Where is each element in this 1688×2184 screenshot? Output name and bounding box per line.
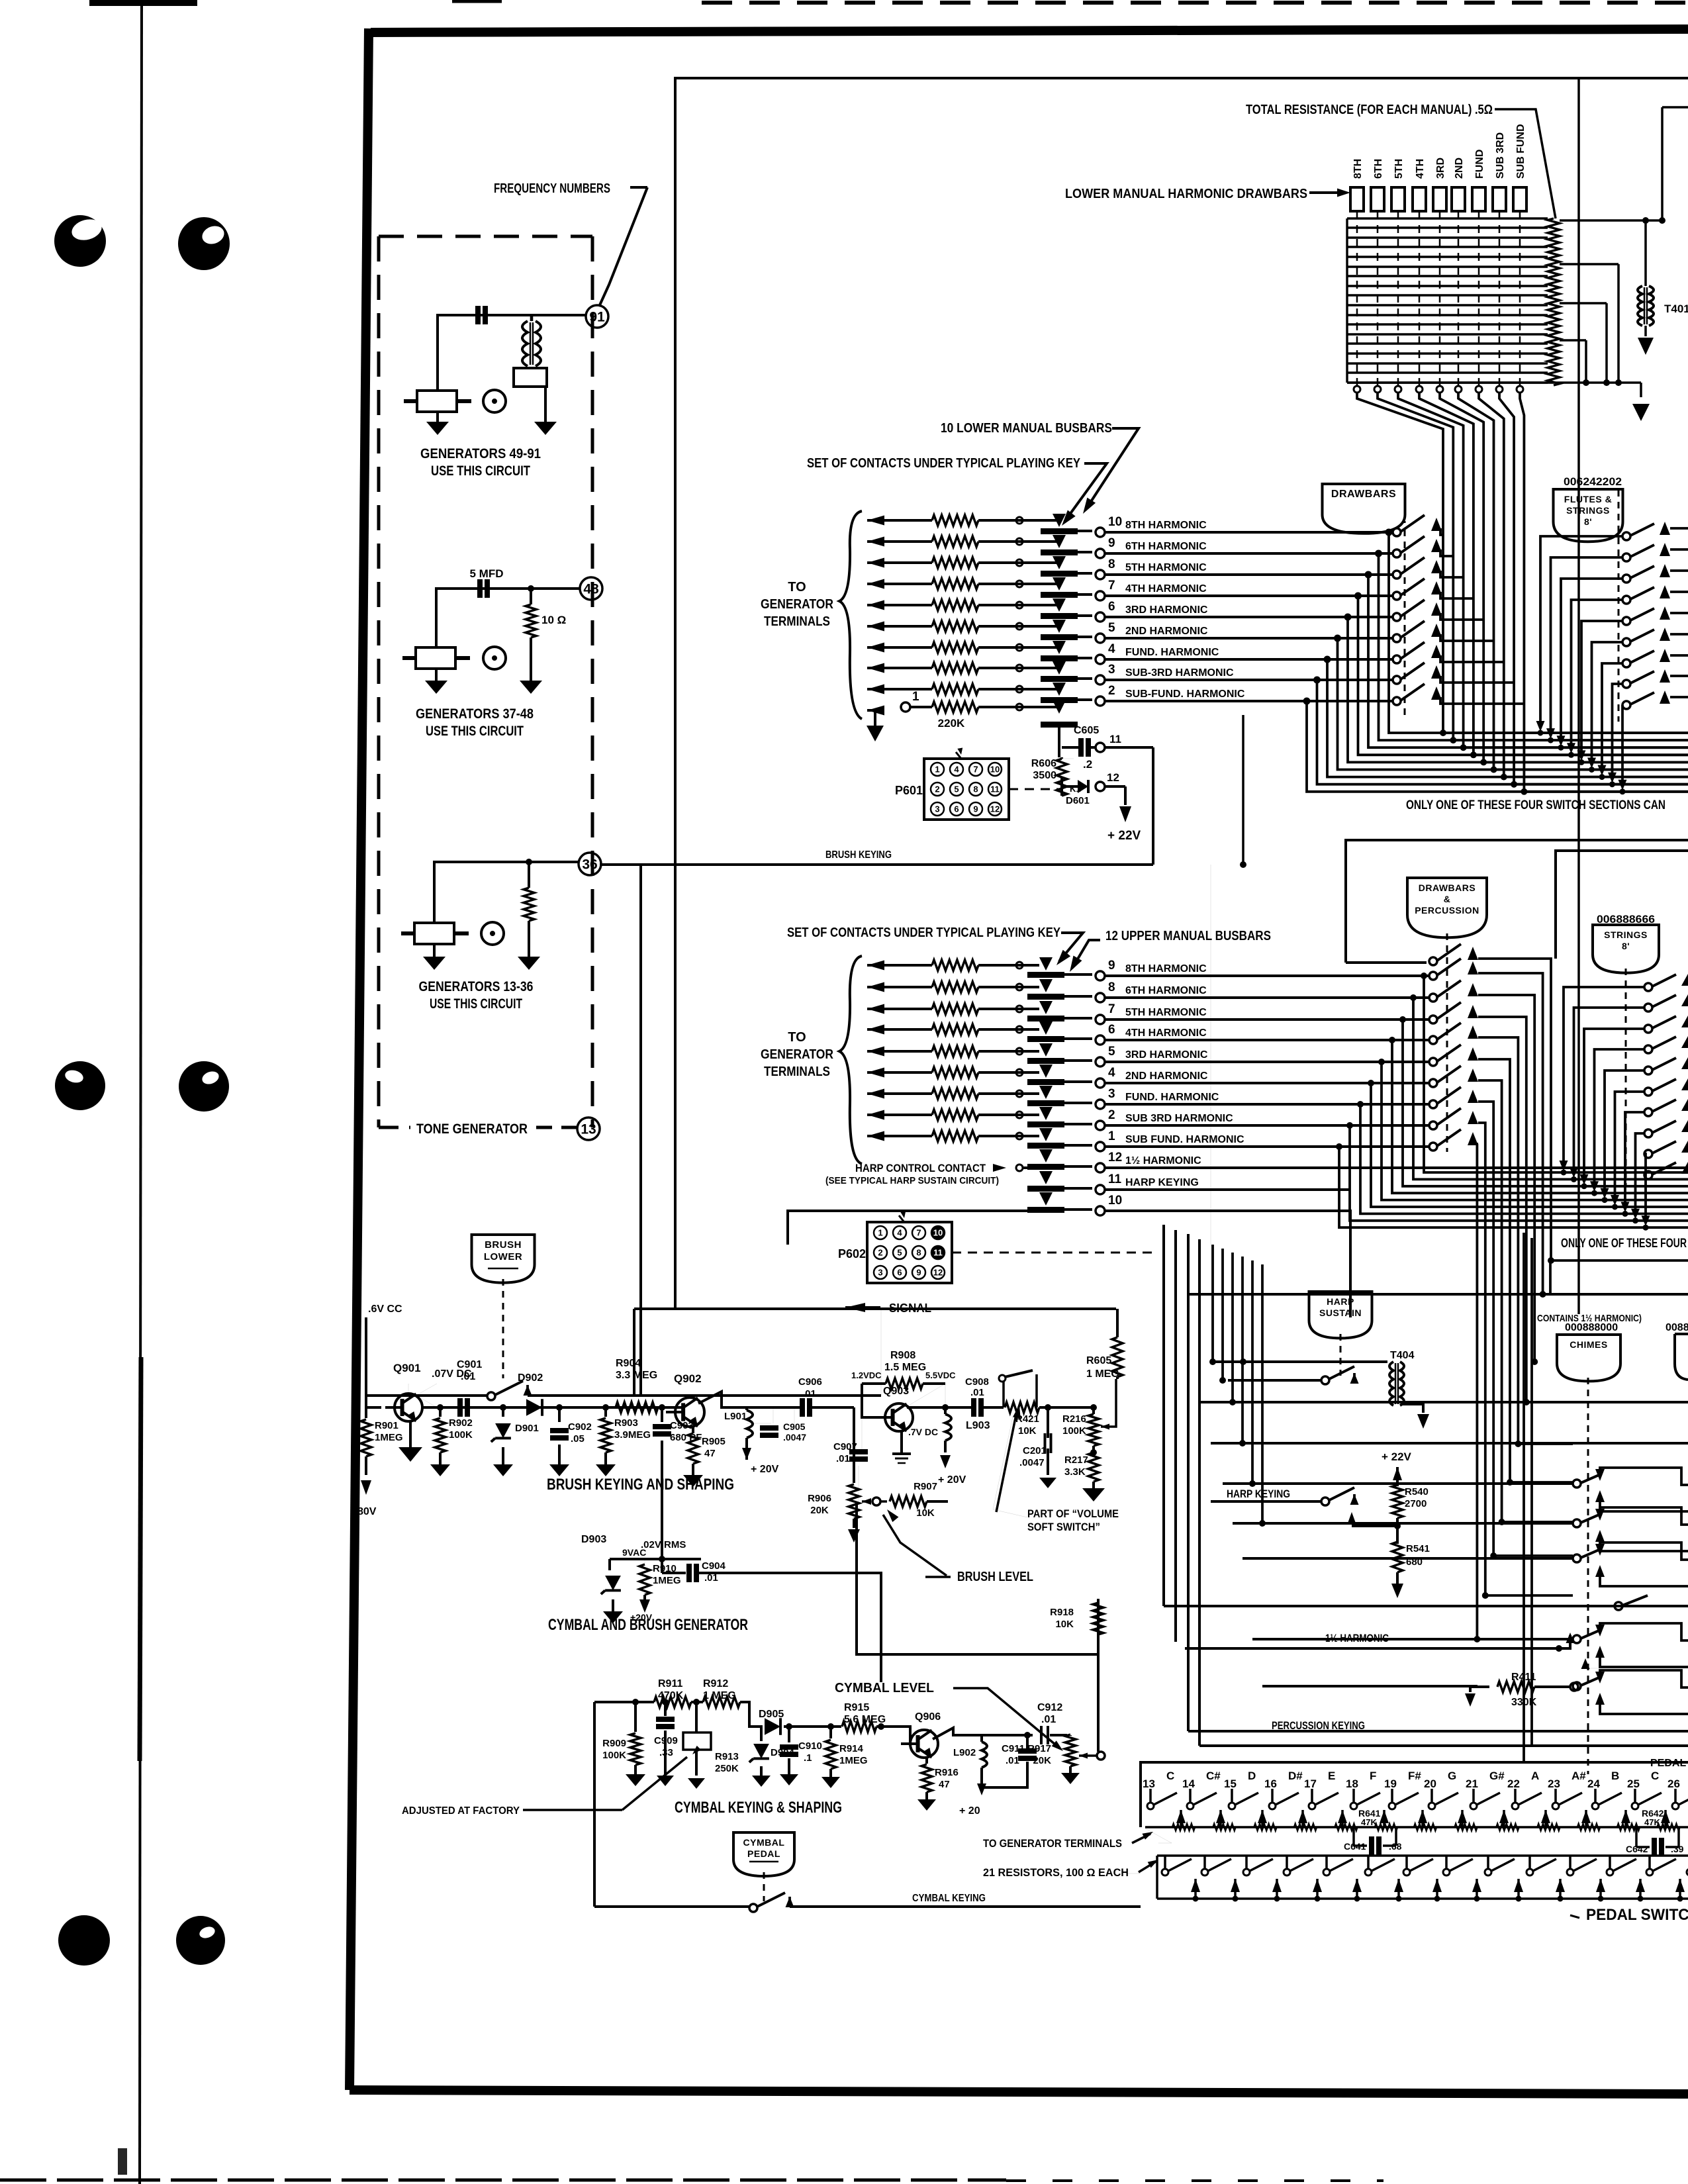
svg-text:+ 20V: + 20V (938, 1474, 966, 1486)
drawbar grid wire (1347, 304, 1548, 306)
svg-text:R216: R216 (1062, 1413, 1086, 1425)
frequency node circle 91 (586, 305, 608, 328)
svg-text:2700: 2700 (1405, 1498, 1427, 1509)
wire to R906 (853, 1407, 855, 1483)
svg-text:GENERATORS 49-91: GENERATORS 49-91 (420, 446, 541, 461)
svg-text:100K: 100K (602, 1750, 626, 1761)
drawbar dashed drop (1439, 211, 1441, 385)
svg-text:36: 36 (582, 857, 597, 873)
busbar segment 2 (1041, 697, 1078, 703)
wire Q903 out down (857, 1501, 1098, 1654)
brace TO GENERATOR TERMINALS lower (839, 511, 862, 719)
drawbar grid wire (1347, 314, 1548, 316)
diode D901 shunt (500, 1405, 506, 1411)
total resistance zigzag (1548, 218, 1560, 385)
svg-text:47: 47 (939, 1779, 950, 1790)
svg-text:GENERATORS 13-36: GENERATORS 13-36 (419, 979, 534, 994)
svg-text:C201: C201 (1023, 1445, 1047, 1456)
lower manual key contact row 10 (867, 516, 884, 526)
leader total resistance (1495, 109, 1556, 218)
dashed drop brush shield (502, 1279, 504, 1378)
terminal circle 2 (1096, 696, 1105, 706)
upper terminal circle 2 (1096, 1121, 1105, 1130)
resistor R540 2700 (1392, 1485, 1403, 1518)
leader to drawbars (1309, 191, 1344, 194)
flutes switch output (1670, 591, 1688, 593)
svg-text:20K: 20K (810, 1505, 829, 1516)
svg-text:9: 9 (916, 1268, 921, 1278)
dashed drop strings shield (1625, 969, 1627, 1185)
d&p switch output to percussion (1477, 1144, 1478, 1639)
percussion switch row 1 (1573, 1480, 1581, 1488)
svg-text:T404: T404 (1390, 1350, 1415, 1361)
d&p switch output to percussion (1478, 995, 1534, 1362)
svg-text:11: 11 (933, 1248, 943, 1258)
shield HARP SUSTAIN (1309, 1292, 1372, 1338)
leader line frequency numbers (599, 187, 647, 307)
wire row 10 L-shape (1105, 1211, 1350, 1317)
svg-text:D601: D601 (1066, 795, 1090, 806)
pot R913 250K (694, 1699, 700, 1705)
capacitor C905 .0047 (747, 1423, 771, 1424)
upper switch area box (1346, 840, 1688, 963)
svg-text:.01: .01 (461, 1371, 475, 1382)
svg-text:SUB FUND: SUB FUND (1515, 124, 1526, 179)
inductor L902 (980, 1735, 983, 1742)
svg-text:6: 6 (954, 804, 959, 814)
wire magnet to ground gen1 (544, 387, 547, 422)
svg-text:F#: F# (1408, 1770, 1421, 1782)
punch hole top left (54, 215, 106, 267)
upper busbar segment 2 (1027, 1121, 1064, 1127)
svg-text:8: 8 (1108, 980, 1115, 994)
switch strings row 6 (1644, 1088, 1652, 1096)
bottom edge dashes (0, 2179, 1006, 2182)
svg-text:D: D (1248, 1770, 1256, 1782)
page edge line (140, 0, 142, 2184)
svg-text:8: 8 (1108, 557, 1115, 571)
switch drawbars row 3 (1393, 571, 1401, 579)
svg-text:1½ HARMONIC: 1½ HARMONIC (1125, 1155, 1201, 1166)
wire Q901 base feed (365, 1317, 367, 1407)
drawbar grid wire (1347, 333, 1548, 335)
svg-text:3.9MEG: 3.9MEG (614, 1429, 651, 1441)
svg-text:LOWER MANUAL HARMONIC DRAWB: LOWER MANUAL HARMONIC DRAWBARS (1065, 187, 1307, 201)
svg-text:Q902: Q902 (674, 1372, 702, 1385)
drawbar dashed drop (1356, 211, 1358, 385)
switch flutes row 9 (1622, 701, 1630, 709)
svg-text:.01: .01 (970, 1387, 984, 1398)
switch strings row 9 (1644, 1150, 1652, 1158)
upper manual key contact row 8 (867, 982, 884, 992)
wire to switch section (1105, 616, 1393, 618)
svg-text:.01: .01 (1041, 1714, 1056, 1725)
long verticals to pedal area (1523, 1233, 1525, 1762)
C642 .39 (1635, 1827, 1638, 1847)
svg-text:2: 2 (1108, 1108, 1115, 1122)
svg-text:6: 6 (1108, 1023, 1115, 1037)
long verticals upper area to percussion (1162, 1225, 1165, 1606)
svg-text:DRAWBARS: DRAWBARS (1331, 489, 1396, 500)
pickup symbol gen3 (481, 922, 504, 945)
ground gen1 right (534, 422, 557, 435)
pickup symbol gen1 (483, 390, 506, 412)
resistor R904 3.3 MEG (616, 1402, 658, 1413)
upper terminal circle 6 (1096, 1035, 1105, 1045)
svg-text:TO: TO (788, 580, 806, 594)
tone generator dashed box (379, 235, 592, 238)
bundle feed vertical (1261, 1264, 1264, 1523)
common bus vertical 2 (1378, 393, 1453, 740)
dashed link P601 to D601 (1009, 788, 1059, 790)
frequency node circle 36 (579, 853, 601, 875)
svg-text:USE THIS CIRCUIT: USE THIS CIRCUIT (431, 463, 530, 479)
switch contact stub (1440, 549, 1453, 556)
capacitor C901 .01 (457, 1398, 463, 1417)
lower manual key contact row 7 (867, 579, 884, 589)
svg-text:10: 10 (1108, 515, 1122, 529)
generator 49-91 circuit wires (438, 315, 586, 391)
top-left corner streak (89, 0, 197, 6)
drawbar dashed drop (1499, 211, 1501, 385)
pedal lower switch 18 (1367, 1856, 1370, 1870)
upper manual row 11 (1039, 1171, 1053, 1184)
svg-text:HARP CONTROL CONTACT: HARP CONTROL CONTACT (855, 1162, 986, 1174)
svg-text:3: 3 (1108, 1087, 1115, 1101)
svg-text:ADJUSTED AT FACTORY: ADJUSTED AT FACTORY (402, 1805, 520, 1817)
svg-text:8': 8' (1622, 941, 1630, 951)
flutes switch output (1670, 548, 1688, 551)
brush keying switch (487, 1392, 495, 1400)
svg-text:9: 9 (1108, 959, 1115, 973)
svg-text:R916: R916 (935, 1767, 959, 1778)
svg-text:CYMBAL: CYMBAL (743, 1837, 785, 1848)
pedal lower switch 19 (1405, 1856, 1408, 1870)
dashed drop flutes shield (1618, 490, 1620, 722)
svg-text:PEDAL: PEDAL (747, 1848, 780, 1859)
upper manual key contact row 7 (867, 1004, 884, 1014)
d&p switch output to percussion (1478, 959, 1551, 1260)
lower manual key contact row 3 (867, 663, 884, 673)
switch strings row 4 (1644, 1045, 1652, 1053)
busbar segment 9 (1041, 549, 1078, 555)
svg-text:Q903: Q903 (883, 1386, 909, 1397)
svg-text:5TH: 5TH (1393, 159, 1405, 179)
svg-text:0088: 0088 (1665, 1322, 1688, 1333)
svg-text:CHIMES: CHIMES (1570, 1339, 1607, 1350)
pedal lower switch 13 (1164, 1856, 1166, 1870)
wire to upper switch section (1105, 1039, 1430, 1041)
common bus vertical 3 (1398, 393, 1464, 747)
pedal lower switch row (1157, 1854, 1688, 1857)
terminal circle 5 (1096, 634, 1105, 643)
svg-text:PERCUSSION: PERCUSSION (1415, 905, 1479, 916)
junction from Q903 chain (878, 1724, 884, 1730)
switch drawbars&percussion row 8 (1429, 1100, 1437, 1108)
upper manual key contact row 2 (867, 1110, 884, 1120)
chain resistor 100 ohm (1497, 1824, 1519, 1830)
svg-text:FUND. HARMONIC: FUND. HARMONIC (1125, 647, 1219, 658)
+20 arrow (977, 1783, 986, 1795)
zener D903 (608, 1559, 611, 1570)
dashed drop harp sustain (1340, 1334, 1342, 1376)
d&p switch output to percussion (1478, 1123, 1485, 1595)
pickup symbol gen2 (483, 647, 506, 669)
drawbar dashed drop (1478, 211, 1480, 385)
wire to upper switch section (1105, 1082, 1430, 1084)
d&p switch output to percussion (1478, 1059, 1510, 1482)
svg-text:14: 14 (1182, 1778, 1195, 1790)
svg-text:&: & (1444, 894, 1451, 904)
svg-text:CYMBAL KEYING & SHAPING: CYMBAL KEYING & SHAPING (675, 1799, 842, 1817)
svg-text:R902: R902 (449, 1417, 473, 1429)
svg-text:BRUSH: BRUSH (485, 1239, 522, 1251)
svg-text:D#: D# (1288, 1770, 1303, 1782)
coil gen1 (522, 321, 528, 366)
shield DRAWBARS (1323, 484, 1405, 534)
svg-text:BRUSH KEYING AND SHAPING: BRUSH KEYING AND SHAPING (547, 1476, 734, 1494)
bundle feed vertical (1211, 1245, 1214, 1362)
busbar segment 5 (1041, 634, 1078, 640)
upper terminal circle 3 (1096, 1100, 1105, 1109)
switch contact stub (1440, 613, 1483, 620)
resistor R907 10K (880, 1500, 887, 1503)
bundle row lower (1511, 781, 1517, 787)
connector P601 (924, 759, 1009, 820)
svg-text:G: G (1448, 1770, 1456, 1782)
lower row 220K (867, 706, 884, 716)
common bus vertical 5 (1440, 393, 1483, 762)
svg-text:+ 22V: + 22V (1382, 1450, 1412, 1463)
generator 13-36 circuit wires (434, 862, 579, 923)
svg-text:15: 15 (1224, 1778, 1237, 1790)
svg-text:7: 7 (1108, 579, 1115, 593)
switch drawbars row 7 (1393, 655, 1401, 663)
svg-text:1½ HARMONIC: 1½ HARMONIC (1325, 1632, 1389, 1644)
chain resistor 100 ohm (1335, 1824, 1358, 1830)
switch flutes row 6 (1622, 638, 1630, 646)
svg-text:L901: L901 (724, 1411, 747, 1422)
svg-text:4: 4 (1108, 1066, 1115, 1080)
pedal lower switch 25 (1648, 1856, 1651, 1870)
upper terminal circle 4 (1096, 1078, 1105, 1088)
flutes feed drop to bundle (1561, 579, 1622, 739)
svg-text:006242202: 006242202 (1564, 475, 1622, 488)
svg-text:20: 20 (1424, 1778, 1436, 1790)
svg-text:1.5 MEG: 1.5 MEG (884, 1362, 926, 1373)
svg-text:ONLY ONE OF THESE FOUR: ONLY ONE OF THESE FOUR (1561, 1237, 1687, 1251)
bundle feed vertical (1241, 1257, 1244, 1443)
ground under T401 (1638, 338, 1654, 355)
svg-text:1: 1 (935, 765, 939, 775)
svg-text:(SEE TYPICAL HARP SUSTAIN CIR: (SEE TYPICAL HARP SUSTAIN CIRCUIT) (825, 1175, 999, 1186)
svg-text:SET OF CONTACTS UNDER TYPI: SET OF CONTACTS UNDER TYPICAL PLAYING KE… (787, 926, 1061, 940)
label PART OF VOLUME SOFT SWITCH (993, 1417, 1027, 1517)
switch drawbars&percussion row 2 (1429, 972, 1437, 980)
svg-text:5: 5 (1108, 621, 1115, 635)
svg-text:C642: C642 (1626, 1844, 1648, 1854)
svg-text:R901: R901 (375, 1420, 399, 1431)
wire cymbal keying (594, 1905, 749, 1908)
svg-text:P601: P601 (895, 784, 923, 797)
capacitor C907 .01 (861, 1417, 863, 1450)
svg-text:TERMINALS: TERMINALS (764, 614, 830, 629)
upper busbar segment 5 (1027, 1058, 1064, 1064)
svg-text:C#: C# (1206, 1770, 1221, 1782)
svg-text:SUB 3RD HARMONIC: SUB 3RD HARMONIC (1125, 1113, 1233, 1124)
chain resistor 100 ohm (1577, 1824, 1600, 1830)
magnet box gen1 (514, 368, 547, 387)
switch drawbars&percussion row 9 (1429, 1121, 1437, 1129)
T404 secondary to ground (1401, 1404, 1423, 1413)
svg-text:STRINGS: STRINGS (1604, 929, 1648, 940)
drawbar dashed drop (1458, 211, 1460, 385)
drawbar grid wire (1347, 275, 1548, 277)
wire to upper switch section (1105, 996, 1430, 999)
pedal lower switch 16 (1286, 1856, 1288, 1870)
svg-text:1MEG: 1MEG (839, 1755, 868, 1766)
collector node wire (698, 1392, 800, 1407)
svg-text:R915: R915 (844, 1702, 869, 1713)
svg-text:C912: C912 (1037, 1702, 1062, 1713)
svg-text:3.3 MEG: 3.3 MEG (616, 1370, 657, 1381)
svg-text:3: 3 (935, 804, 939, 814)
vertical bus x1878 (1242, 715, 1244, 865)
svg-text:10 Ω: 10 Ω (541, 614, 566, 626)
svg-text:22: 22 (1507, 1778, 1520, 1790)
upper busbar segment 3 (1027, 1100, 1064, 1106)
svg-text:6TH HARMONIC: 6TH HARMONIC (1125, 541, 1207, 552)
d&p switch output to percussion (1478, 1102, 1493, 1556)
svg-text:PEDAL S: PEDAL S (1650, 1758, 1688, 1769)
svg-text:CYMBAL AND BRUSH GENERATOR: CYMBAL AND BRUSH GENERATOR (548, 1616, 748, 1634)
chain resistor 100 ohm (1172, 1824, 1195, 1830)
svg-text:10: 10 (990, 765, 1000, 775)
terminal circle 10 (1096, 528, 1105, 537)
pedal lower switch 14 (1203, 1856, 1206, 1870)
oscillator coil assembly gen1 (417, 391, 457, 412)
diode D601 (1060, 777, 1063, 796)
flutes switch output (1670, 633, 1688, 636)
svg-text:C908: C908 (965, 1376, 989, 1388)
wire tone-gen 36 to brush area vertical (639, 865, 642, 1396)
svg-text:R905: R905 (702, 1436, 726, 1447)
switch drawbars&percussion row 4 (1429, 1016, 1437, 1023)
drawbar dashed drop (1397, 211, 1399, 385)
svg-text:47K: 47K (1644, 1817, 1660, 1827)
bundle row lower (1521, 788, 1527, 794)
svg-text:4TH HARMONIC: 4TH HARMONIC (1125, 1027, 1207, 1039)
svg-text:330K: 330K (1511, 1697, 1537, 1708)
svg-text:5TH HARMONIC: 5TH HARMONIC (1125, 1007, 1207, 1018)
capacitor C903 680PF (661, 1407, 663, 1422)
terminal circle 4 (1096, 655, 1105, 664)
svg-text:1: 1 (878, 1228, 882, 1238)
svg-text:USE THIS CIRCUIT: USE THIS CIRCUIT (430, 996, 522, 1012)
svg-text:100K: 100K (1062, 1425, 1086, 1437)
flutes switch output (1670, 675, 1688, 677)
punch hole bottom left (58, 1915, 110, 1966)
svg-text:6: 6 (897, 1268, 902, 1278)
capacitor 5mfd gen2 (477, 579, 483, 598)
svg-text:SUSTAIN: SUSTAIN (1319, 1307, 1362, 1318)
switch contact stub (1440, 655, 1504, 662)
grid left vertical (1346, 218, 1348, 383)
svg-text:3RD: 3RD (1435, 158, 1446, 179)
svg-text:PART OF “VOLUME: PART OF “VOLUME (1027, 1507, 1119, 1520)
svg-text:R909: R909 (602, 1738, 626, 1749)
bundle row lower (1470, 752, 1476, 758)
drawbar grid wire (1347, 236, 1548, 238)
svg-text:11: 11 (1108, 1172, 1122, 1186)
inner box lower-manual area (675, 78, 1688, 1309)
drawbar grid wire (1347, 342, 1548, 344)
Q903 emitter ground (900, 1431, 903, 1454)
svg-text:8': 8' (1584, 516, 1592, 527)
drawbar SUB 3RD (1493, 187, 1506, 211)
svg-text:SUB 3RD: SUB 3RD (1495, 132, 1506, 179)
svg-text:FREQUENCY NUMBERS: FREQUENCY NUMBERS (494, 181, 610, 196)
svg-text:9: 9 (1108, 536, 1115, 550)
switch flutes row 5 (1622, 617, 1630, 625)
flutes switch output (1670, 654, 1688, 657)
page edge smudge bottom (140, 1357, 141, 1761)
svg-text:ONLY ONE OF THESE FOUR SWITCH: ONLY ONE OF THESE FOUR SWITCH SECTIONS C… (1406, 798, 1665, 812)
svg-text:R540: R540 (1405, 1486, 1429, 1497)
switch strings row 7 (1644, 1108, 1652, 1116)
drawbar grid wire (1347, 226, 1548, 228)
resistance taps (1560, 219, 1662, 222)
svg-text:5.5VDC: 5.5VDC (925, 1370, 956, 1380)
pot R216 100K (1091, 1405, 1097, 1411)
resistor R541 680 (1392, 1542, 1403, 1572)
wire to upper switch section (1105, 1061, 1430, 1063)
volume soft switch (982, 1406, 1004, 1409)
common bus vertical 1 (1357, 393, 1443, 733)
svg-text:18: 18 (1346, 1778, 1358, 1790)
pedal lower switch 20 (1445, 1856, 1448, 1870)
svg-text:.02V RMS: .02V RMS (641, 1539, 686, 1550)
inductor L901 (745, 1407, 748, 1410)
svg-text:D902: D902 (518, 1372, 543, 1384)
svg-text:47K: 47K (1361, 1817, 1377, 1827)
svg-text:2ND HARMONIC: 2ND HARMONIC (1125, 626, 1208, 637)
svg-text:HARP: HARP (1327, 1296, 1354, 1307)
terminal circle 6 (1096, 612, 1105, 622)
wire to switch section (1105, 552, 1393, 555)
svg-text:2ND HARMONIC: 2ND HARMONIC (1125, 1070, 1208, 1082)
drawbar grid wire (1347, 285, 1548, 287)
upper manual key contact row 3 (867, 1089, 884, 1099)
common bus vertical 6 (1458, 393, 1494, 770)
strings feed drop to bundle (1625, 1112, 1644, 1206)
upper staircase junctions (1421, 973, 1427, 979)
resistor R909 100K stub (633, 1699, 639, 1705)
svg-text:FUND. HARMONIC: FUND. HARMONIC (1125, 1092, 1219, 1103)
svg-text:FUND: FUND (1474, 150, 1485, 179)
flutes feed drop to bundle (1581, 621, 1622, 754)
percussion switch row 5 (1573, 1682, 1581, 1690)
capacitor C904 .01 (661, 1559, 663, 1573)
drawbar FUND (1472, 187, 1485, 211)
svg-text:.0047: .0047 (1019, 1457, 1045, 1468)
svg-text:R917: R917 (1027, 1743, 1051, 1754)
busbar segment 10 (1041, 528, 1078, 534)
percussion horizontal buses (1188, 1293, 1688, 1296)
svg-text:5: 5 (897, 1248, 902, 1258)
pedal lower switch 23 (1569, 1856, 1571, 1870)
wire to switch section (1105, 531, 1393, 534)
